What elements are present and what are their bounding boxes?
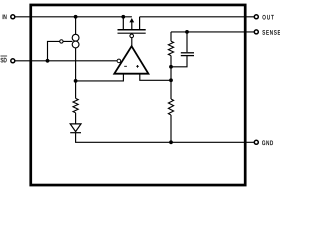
terminal OUT — [254, 15, 258, 19]
resistor R2 feedback bottom — [170, 80, 172, 99]
label GND — [262, 140, 273, 145]
terminal IN — [11, 15, 15, 19]
drain leg — [139, 17, 141, 30]
source leg — [122, 17, 124, 30]
amp plus sign — [136, 65, 139, 67]
resistor R1 feedback top — [168, 41, 173, 55]
wire gate to amp output — [131, 38, 133, 46]
wire current-source bottom lead down to bandgap resistor — [75, 48, 77, 99]
wire diode to GND rail — [76, 133, 255, 143]
amp enable bubble — [117, 59, 121, 63]
body arrow shaft — [131, 22, 133, 30]
wire amp non-inverting input to feedback node — [140, 74, 171, 81]
wire OUT rail (transistor drain to OUT terminal) — [140, 16, 255, 18]
resistor R3 bandgap — [73, 98, 78, 112]
gate bubble — [130, 34, 134, 38]
terminal SD — [11, 59, 15, 63]
amp minus sign — [124, 65, 127, 67]
wire R1 bottom to feedback node — [170, 56, 172, 81]
node open circle on SD branch — [60, 40, 63, 43]
wire resistor to diode — [75, 113, 77, 124]
capacitor C1 lead bottom — [171, 56, 187, 67]
node dot SENSE / capacitor — [185, 30, 189, 34]
node dot SD line branch — [46, 59, 50, 63]
SD overline — [1, 55, 8, 57]
wire current-source top lead — [75, 17, 77, 35]
body arrow head — [129, 18, 134, 22]
wire amp inverting input to reference node — [76, 74, 124, 81]
current source I1 (stacked circles) — [72, 34, 79, 41]
terminal GND — [254, 140, 258, 144]
node dot reference / amp inverting — [74, 79, 78, 83]
diode D1 bandgap — [70, 124, 81, 132]
node dot R2 / GND rail — [169, 140, 173, 144]
label OUT — [262, 15, 274, 20]
wire SD branch riser — [48, 41, 73, 60]
wire SENSE line — [171, 31, 254, 33]
node dot IN rail / current source — [74, 15, 78, 19]
op-amp U1 error amplifier — [114, 46, 148, 73]
wire IN rail (IN terminal to transistor source stub) — [15, 16, 132, 18]
capacitor C1 plates — [181, 52, 194, 54]
capacitor C1 lead top — [186, 32, 188, 52]
node dot IN rail / transistor source — [121, 15, 125, 19]
label IN — [3, 14, 7, 19]
transistor Q1 PMOS pass element — [118, 17, 146, 33]
terminal SENSE — [254, 30, 258, 34]
label SD — [0, 58, 6, 63]
wire R1 top lead from SENSE corner — [170, 32, 172, 41]
wire SD line (SD terminal to amp bubble) — [15, 60, 117, 62]
channel bar — [118, 29, 146, 31]
node dot feedback / amp non-inverting — [169, 78, 173, 82]
label SENSE — [262, 30, 280, 35]
gate bar — [118, 32, 146, 34]
node dot R1 / capacitor bottom — [169, 65, 173, 69]
block outline box — [31, 5, 245, 185]
